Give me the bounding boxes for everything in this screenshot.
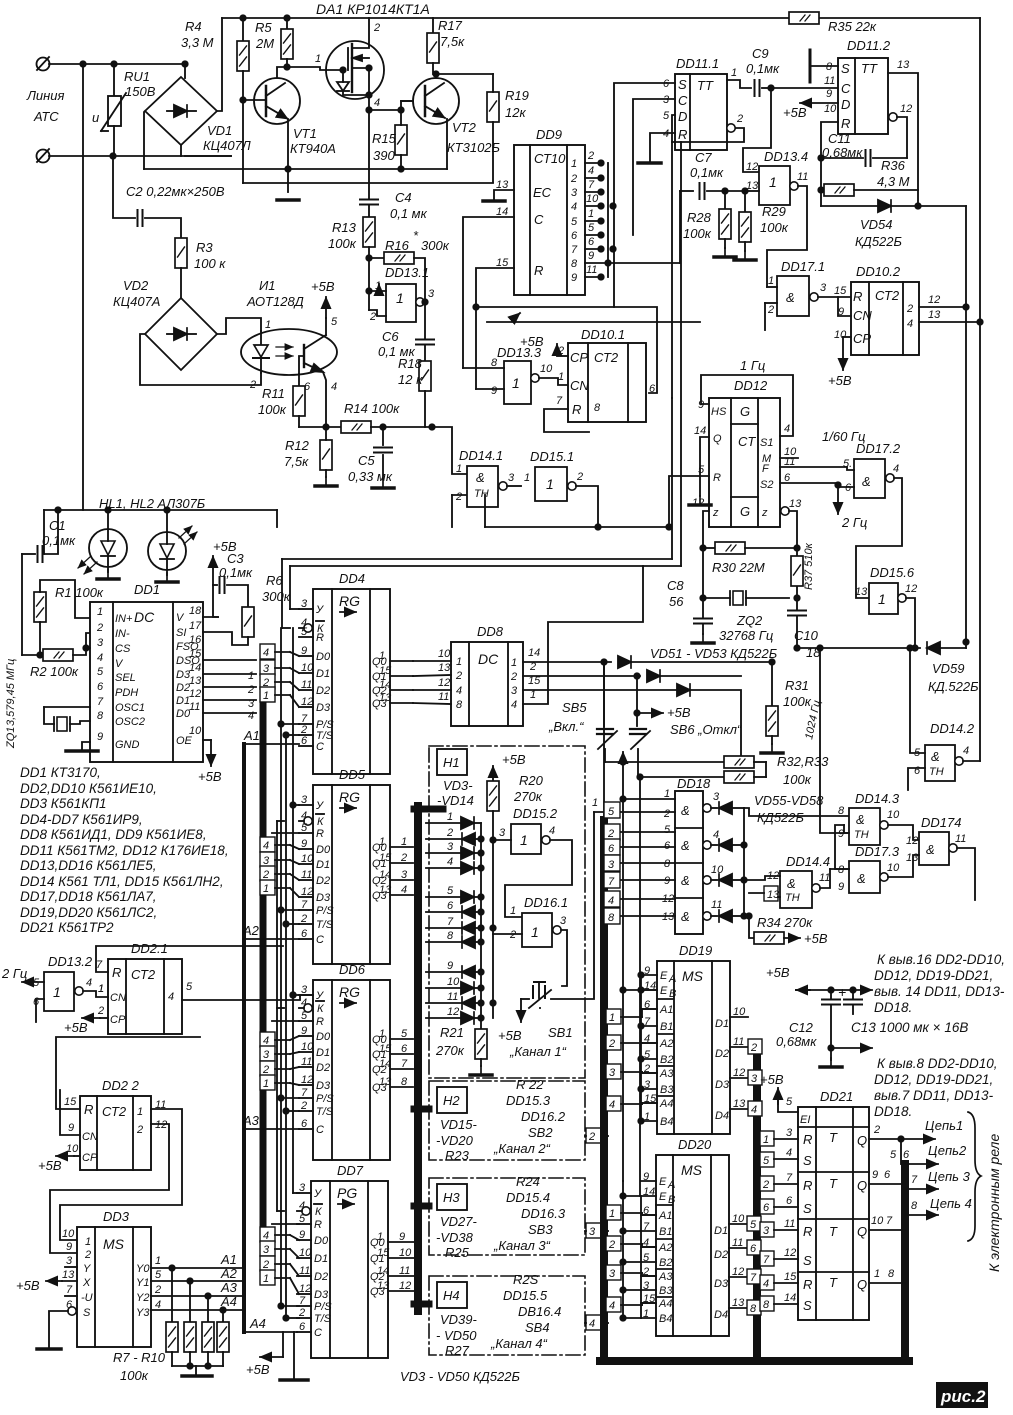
- svg-text:7: 7: [447, 916, 454, 928]
- svg-text:3: 3: [786, 1127, 793, 1139]
- svg-text:VD27-: VD27-: [440, 1214, 478, 1229]
- wire bridge right to rail: [217, 18, 222, 111]
- svg-text:Y: Y: [83, 1263, 91, 1275]
- svg-text:17: 17: [189, 620, 202, 632]
- svg-text:D2: D2: [176, 682, 190, 694]
- svg-text:150В: 150В: [125, 84, 156, 99]
- ground DD1 GND: [82, 742, 90, 750]
- svg-text:100 к: 100 к: [194, 256, 226, 271]
- svg-text:12: 12: [900, 103, 912, 115]
- resistor R12: [284, 427, 337, 486]
- svg-text:3: 3: [609, 1268, 616, 1280]
- wire DD21 outputs: [869, 1118, 963, 1142]
- svg-text:DD16.3: DD16.3: [521, 1206, 566, 1221]
- gate DD17.4: [906, 815, 975, 900]
- node tag 1 DD19: [606, 1009, 657, 1024]
- svg-text:4: 4: [263, 647, 269, 659]
- svg-text:8: 8: [838, 864, 845, 876]
- svg-text:7: 7: [97, 696, 104, 708]
- svg-text:С4: С4: [395, 190, 412, 205]
- svg-text:&: &: [787, 876, 796, 891]
- svg-text:2: 2: [576, 471, 583, 483]
- svg-text:5: 5: [571, 216, 578, 228]
- svg-text:7: 7: [401, 1058, 408, 1070]
- svg-text:B4: B4: [660, 1116, 673, 1128]
- svg-text:VD39-: VD39-: [440, 1312, 478, 1327]
- svg-text:R: R: [534, 263, 543, 278]
- capacitor C7: [680, 150, 748, 199]
- svg-text:D0: D0: [316, 651, 331, 663]
- svg-text:2: 2: [906, 303, 913, 315]
- svg-text:2: 2: [455, 491, 462, 503]
- svg-text:DD4: DD4: [339, 571, 365, 586]
- svg-text:8: 8: [401, 1076, 408, 1088]
- wire DD12 R: [669, 476, 709, 527]
- svg-text:13: 13: [662, 911, 675, 923]
- svg-text:A1: A1: [659, 1004, 673, 1016]
- svg-text:6: 6: [884, 1169, 891, 1181]
- svg-text:0,68мк: 0,68мк: [776, 1034, 817, 1049]
- svg-text:100к: 100к: [258, 402, 287, 417]
- svg-text:7: 7: [66, 1284, 73, 1296]
- register DD6: [299, 962, 413, 1160]
- svg-text:R7 - R10: R7 - R10: [113, 1350, 166, 1365]
- svg-text:5: 5: [786, 1096, 793, 1108]
- svg-text:3: 3: [820, 282, 827, 294]
- svg-text:C: C: [534, 212, 544, 227]
- svg-text:VD59: VD59: [932, 661, 965, 676]
- wire U1 pin4 collector: [323, 372, 326, 427]
- svg-text:ЕI: ЕI: [800, 1114, 810, 1126]
- svg-text:SEL: SEL: [115, 672, 136, 684]
- svg-text:A2: A2: [659, 1038, 673, 1050]
- svg-text:КД522Б: КД522Б: [855, 234, 903, 249]
- svg-text:2: 2: [84, 1249, 91, 1261]
- wire relay bundle right: [901, 1164, 909, 1361]
- wire DD2.2 CN: [60, 1090, 80, 1135]
- wire left drop to HL block: [82, 64, 84, 510]
- wire DD11.1 C: [633, 99, 675, 235]
- svg-text:3: 3: [97, 637, 104, 649]
- IC DD1: [90, 582, 203, 762]
- svg-text:B: B: [668, 1194, 675, 1206]
- wire R7-R10 gnd: [172, 1365, 223, 1367]
- svg-text:Y0: Y0: [136, 1263, 150, 1275]
- svg-text:8: 8: [594, 402, 601, 414]
- svg-text:100к: 100к: [328, 236, 357, 251]
- svg-text:DD15.4: DD15.4: [506, 1190, 550, 1205]
- svg-text:&: &: [681, 838, 690, 853]
- wire SB bus vertical thin top: [603, 662, 605, 820]
- resistor R8: [184, 1281, 196, 1366]
- dashed box H1: [429, 746, 585, 1078]
- capacitor C5: [348, 427, 394, 488]
- svg-text:2: 2: [373, 22, 380, 34]
- svg-text:A: A: [668, 973, 676, 985]
- svg-text:МS: МS: [103, 1236, 125, 1252]
- svg-text:2: 2: [663, 808, 670, 820]
- svg-text:8: 8: [911, 1200, 918, 1212]
- wire DD12 zbar out: [781, 507, 800, 609]
- trigger DD11.1: [663, 56, 727, 150]
- wire K vyv8 arrow: [820, 1045, 872, 1067]
- svg-text:15: 15: [784, 1271, 797, 1283]
- svg-text:R30 22М: R30 22М: [712, 560, 765, 575]
- node tag 2 DD20: [606, 1236, 656, 1251]
- svg-text:К электронным реле: К электронным реле: [986, 1134, 1002, 1272]
- wire DD12 Q to gnd: [700, 437, 709, 496]
- svg-text:МS: МS: [682, 968, 704, 984]
- svg-text:R12: R12: [285, 438, 310, 453]
- svg-text:S: S: [803, 1201, 812, 1216]
- resistor R18: [398, 356, 431, 427]
- svg-text:2: 2: [607, 828, 614, 840]
- svg-text:DD19: DD19: [679, 943, 712, 958]
- wire DD10.2 outputs: [919, 294, 983, 325]
- svg-text:R15: R15: [372, 131, 397, 146]
- svg-text:выв. 14 DD11, DD13-: выв. 14 DD11, DD13-: [874, 984, 1005, 999]
- svg-text:8: 8: [97, 710, 104, 722]
- svg-text:Q: Q: [713, 433, 722, 445]
- svg-text:4: 4: [331, 381, 337, 393]
- svg-text:11: 11: [711, 899, 722, 911]
- switch SB1: [509, 812, 594, 1059]
- svg-text:R: R: [678, 127, 687, 142]
- wire rail y182: [243, 182, 493, 184]
- svg-text:5: 5: [750, 1219, 757, 1231]
- svg-text:R36: R36: [881, 158, 906, 173]
- svg-text:300к: 300к: [262, 589, 291, 604]
- wire diode column: [480, 823, 482, 1029]
- wire right border: [979, 18, 981, 761]
- svg-text:2 Гц: 2 Гц: [841, 515, 867, 530]
- mux DD20: [641, 1137, 761, 1336]
- svg-text:DD3: DD3: [103, 1209, 130, 1224]
- svg-text:7: 7: [786, 1172, 793, 1184]
- svg-text:DD7: DD7: [337, 1163, 364, 1178]
- svg-text:3: 3: [263, 663, 270, 675]
- svg-text:R: R: [803, 1224, 812, 1239]
- wire VT1 collector: [277, 67, 287, 78]
- svg-text:DD12, DD19-DD21,: DD12, DD19-DD21,: [874, 968, 993, 983]
- svg-text:4: 4: [608, 895, 614, 907]
- svg-text:3: 3: [511, 685, 518, 697]
- svg-text:1: 1: [874, 1268, 880, 1280]
- svg-text:11: 11: [399, 1265, 410, 1277]
- svg-text:&: &: [857, 871, 866, 886]
- svg-text:DD13.4: DD13.4: [764, 149, 808, 164]
- svg-text:DD13,DD16 К561ЛЕ5,: DD13,DD16 К561ЛЕ5,: [20, 858, 157, 873]
- svg-text:S1: S1: [760, 437, 773, 449]
- svg-text:EC: EC: [533, 185, 552, 200]
- wire DD2.1 out to DD6: [182, 995, 313, 1000]
- svg-text:270к: 270к: [513, 789, 543, 804]
- svg-text:Q: Q: [857, 1224, 867, 1239]
- svg-text:R1 100к: R1 100к: [55, 585, 104, 600]
- wire DD8 out3 VD53 line: [523, 689, 677, 691]
- wire DD8 out1 VD51 line: [523, 661, 611, 663]
- svg-text:2: 2: [762, 1179, 769, 1191]
- svg-text:C: C: [316, 934, 324, 946]
- svg-text:13: 13: [438, 662, 451, 674]
- svg-text:1: 1: [456, 463, 462, 475]
- wire DD3 X +5V: [16, 1278, 77, 1293]
- svg-text:11: 11: [447, 991, 458, 1003]
- node tags register inputs: [260, 644, 299, 659]
- svg-text:1: 1: [396, 290, 404, 306]
- svg-text:OSC1: OSC1: [115, 702, 145, 714]
- svg-text:Н3: Н3: [443, 1190, 460, 1205]
- svg-text:SВ1: SВ1: [548, 1025, 573, 1040]
- counter DD9: [496, 127, 599, 295]
- svg-text:Т: Т: [829, 1176, 838, 1191]
- svg-text:7: 7: [750, 1272, 757, 1284]
- wire P/S net: [280, 628, 282, 1306]
- svg-text:DD2,DD10 К561ИЕ10,: DD2,DD10 К561ИЕ10,: [20, 781, 157, 796]
- node line terminal 1: [37, 57, 50, 71]
- svg-text:С10: С10: [794, 628, 819, 643]
- svg-text:13: 13: [189, 675, 202, 687]
- node tag 2 DD19: [606, 1035, 657, 1050]
- svg-text:4: 4: [168, 991, 174, 1003]
- svg-text:10: 10: [887, 862, 900, 874]
- svg-text:DD19,DD20 К561ЛС2,: DD19,DD20 К561ЛС2,: [20, 905, 157, 920]
- svg-text:R: R: [803, 1277, 812, 1292]
- crystal ZQ1: [5, 659, 90, 749]
- svg-text:10: 10: [834, 329, 847, 341]
- svg-text:1: 1: [531, 924, 539, 940]
- svg-text:DD17.3: DD17.3: [855, 844, 900, 859]
- svg-text:B3: B3: [660, 1084, 674, 1096]
- svg-text:8: 8: [571, 258, 578, 270]
- svg-text:12: 12: [399, 1280, 411, 1292]
- svg-text:+: +: [838, 984, 846, 1000]
- svg-text:3: 3: [751, 1073, 758, 1085]
- gate DD14.1: [455, 448, 521, 507]
- mux DD3: [62, 1209, 162, 1347]
- svg-text:3,3 М: 3,3 М: [181, 35, 214, 50]
- svg-text:4: 4: [401, 884, 407, 896]
- gate DD16.1: [493, 895, 568, 986]
- svg-text:12: 12: [784, 1247, 796, 1259]
- wire C1 left drop: [21, 554, 23, 655]
- svg-text:13: 13: [789, 498, 802, 510]
- svg-text:14: 14: [694, 425, 706, 437]
- counter DD2.1: [96, 941, 193, 1034]
- svg-text:DD10.2: DD10.2: [856, 264, 901, 279]
- svg-text:12: 12: [438, 677, 450, 689]
- svg-text:R: R: [572, 402, 581, 417]
- svg-text:2: 2: [608, 1239, 615, 1251]
- svg-text:13: 13: [928, 309, 941, 321]
- gate DD15.6: [855, 565, 917, 648]
- svg-text:P/S: P/S: [316, 1093, 334, 1105]
- svg-text:10: 10: [711, 864, 724, 876]
- svg-text:+5В: +5В: [198, 769, 222, 784]
- svg-text:R: R: [853, 289, 862, 304]
- wire DD9 outputs: [585, 160, 680, 279]
- svg-text:К: К: [317, 816, 324, 828]
- svg-text:R11: R11: [262, 386, 285, 401]
- svg-text:R28: R28: [687, 210, 712, 225]
- decoder DD8: [438, 624, 541, 726]
- svg-text:У: У: [315, 800, 324, 812]
- svg-text:100к: 100к: [683, 226, 712, 241]
- svg-text:С13 1000 мк × 16В: С13 1000 мк × 16В: [851, 1020, 968, 1035]
- svg-text:+5В: +5В: [64, 1020, 88, 1035]
- svg-text:1: 1: [401, 836, 407, 848]
- svg-text:DD10.1: DD10.1: [581, 327, 625, 342]
- svg-text:- VD50: - VD50: [436, 1328, 477, 1343]
- capacitor C9: [746, 46, 780, 96]
- svg-text:RG: RG: [339, 984, 360, 1000]
- svg-text:1: 1: [97, 606, 103, 618]
- svg-text:+5В: +5В: [16, 1278, 40, 1293]
- wire DD17.2 out: [856, 478, 902, 598]
- svg-text:13: 13: [897, 59, 910, 71]
- svg-text:1: 1: [511, 657, 517, 669]
- svg-text:1: 1: [155, 1255, 161, 1267]
- svg-text:Н1: Н1: [443, 755, 460, 770]
- wire A select bundle: [242, 744, 246, 1332]
- svg-text:4: 4: [663, 128, 669, 140]
- svg-text:0,68мк: 0,68мк: [822, 145, 863, 160]
- svg-text:SВ2: SВ2: [528, 1125, 553, 1140]
- svg-text:E: E: [659, 1176, 667, 1188]
- resistor R17: [427, 18, 465, 74]
- svg-text:CP: CP: [82, 1152, 98, 1164]
- wire DD2.2 out11: [60, 1109, 182, 1240]
- svg-text:R: R: [803, 1178, 812, 1193]
- node tag 1 DD20: [606, 1205, 656, 1220]
- wire relay bundle mid: [753, 1056, 761, 1361]
- svg-text:R6: R6: [266, 573, 283, 588]
- svg-text:рис.2: рис.2: [940, 1387, 986, 1406]
- svg-text:CP: CP: [110, 1014, 126, 1026]
- wire DD3 S gnd: [37, 1307, 76, 1349]
- svg-text:Цепь 3: Цепь 3: [928, 1169, 971, 1184]
- capacitor C6: [378, 329, 434, 361]
- svg-text:А3: А3: [242, 1113, 260, 1128]
- svg-text:+5В: +5В: [667, 705, 691, 720]
- node tag 3 DD20: [606, 1265, 656, 1280]
- svg-text:5: 5: [763, 1155, 770, 1167]
- svg-text:DD11 К561ТМ2, DD12 К176ИЕ18,: DD11 К561ТМ2, DD12 К176ИЕ18,: [20, 843, 229, 858]
- svg-text:DD13.2: DD13.2: [48, 954, 93, 969]
- optocoupler U1: [241, 278, 338, 393]
- svg-text:2: 2: [247, 684, 254, 696]
- svg-text:А1: А1: [243, 728, 260, 743]
- svg-text:R: R: [314, 1219, 322, 1231]
- svg-text:4: 4: [263, 840, 269, 852]
- svg-text:D2: D2: [316, 875, 330, 887]
- svg-text:DD14 К561 ТЛ1, DD15 К561ЛН2,: DD14 К561 ТЛ1, DD15 К561ЛН2,: [20, 874, 224, 889]
- wire C9 node down to DD13.4: [743, 88, 771, 172]
- svg-text:&: &: [856, 812, 865, 827]
- svg-text:10: 10: [586, 193, 599, 205]
- svg-text:10: 10: [887, 809, 900, 821]
- register DD7: [297, 1163, 415, 1358]
- svg-text:D1: D1: [714, 1225, 728, 1237]
- node tags register inputs: [260, 1032, 299, 1047]
- svg-text:3: 3: [263, 855, 270, 867]
- svg-text:8: 8: [888, 1268, 895, 1280]
- wire DD2.2 out12: [50, 1124, 169, 1253]
- svg-text:&: &: [931, 749, 940, 764]
- svg-text:7: 7: [763, 1254, 770, 1266]
- svg-text:4: 4: [447, 856, 453, 868]
- node tags register inputs: [260, 837, 299, 852]
- svg-text:ТН: ТН: [785, 892, 800, 904]
- diode VD53: [677, 684, 690, 696]
- resistor R3: [175, 238, 226, 298]
- svg-text:„Канал 2“: „Канал 2“: [493, 1141, 551, 1156]
- wire rail y566: [290, 565, 681, 567]
- svg-text:К выв.8 DD2-DD10,: К выв.8 DD2-DD10,: [877, 1056, 998, 1071]
- svg-text:10: 10: [447, 976, 460, 988]
- svg-text:Линия: Линия: [26, 88, 65, 103]
- svg-text:S: S: [803, 1253, 812, 1268]
- svg-text:1: 1: [769, 174, 777, 190]
- gate DD13.4: [745, 149, 808, 287]
- svg-text:11: 11: [824, 75, 835, 87]
- svg-text:E: E: [659, 1191, 667, 1203]
- svg-text:D1: D1: [316, 1047, 330, 1059]
- svg-text:DD12: DD12: [734, 378, 768, 393]
- wire loop y322: [487, 321, 700, 323]
- svg-text:0,1мк: 0,1мк: [746, 61, 780, 76]
- resistor R5: [255, 18, 293, 67]
- svg-text:R: R: [112, 965, 121, 980]
- transistor VT1: [254, 78, 336, 156]
- svg-text:7: 7: [556, 395, 563, 407]
- svg-text:R: R: [316, 828, 324, 840]
- svg-text:11: 11: [586, 264, 597, 276]
- svg-text:2: 2: [446, 827, 453, 839]
- svg-text:D2: D2: [715, 1048, 729, 1060]
- svg-text:А4: А4: [220, 1294, 237, 1309]
- svg-text:RG: RG: [339, 789, 360, 805]
- resistor R36: [821, 158, 918, 196]
- wire bridge bottom: [180, 145, 182, 156]
- wire R4 node down to rail3: [242, 100, 244, 183]
- wire rail y169: [144, 168, 447, 170]
- svg-text:1: 1: [263, 690, 269, 702]
- svg-text:9: 9: [872, 1169, 878, 1181]
- wire DD11.2 R: [821, 122, 838, 206]
- svg-text:13: 13: [62, 1269, 75, 1281]
- counter DD10.2: [834, 264, 919, 355]
- svg-text:9: 9: [588, 250, 594, 262]
- svg-text:HL1, НL2 АЛ307Б: HL1, НL2 АЛ307Б: [99, 496, 206, 511]
- svg-text:56: 56: [669, 594, 684, 609]
- svg-text:С6: С6: [382, 329, 399, 344]
- svg-text:3: 3: [401, 869, 408, 881]
- svg-text:КД.522Б: КД.522Б: [928, 679, 979, 694]
- svg-text:+5В: +5В: [828, 373, 852, 388]
- svg-text:D3: D3: [316, 702, 331, 714]
- svg-text:2: 2: [767, 304, 774, 316]
- wire rail y559: [282, 558, 672, 560]
- svg-text:R: R: [803, 1132, 812, 1147]
- svg-text:u: u: [92, 110, 99, 125]
- svg-text:4: 4: [963, 745, 969, 757]
- wire 2Hz arrow: [838, 487, 867, 530]
- svg-text:R: R: [84, 1102, 93, 1117]
- dashed box Н2: [429, 1081, 585, 1160]
- gate DD17.1: [765, 259, 851, 330]
- svg-text:1: 1: [379, 1028, 385, 1040]
